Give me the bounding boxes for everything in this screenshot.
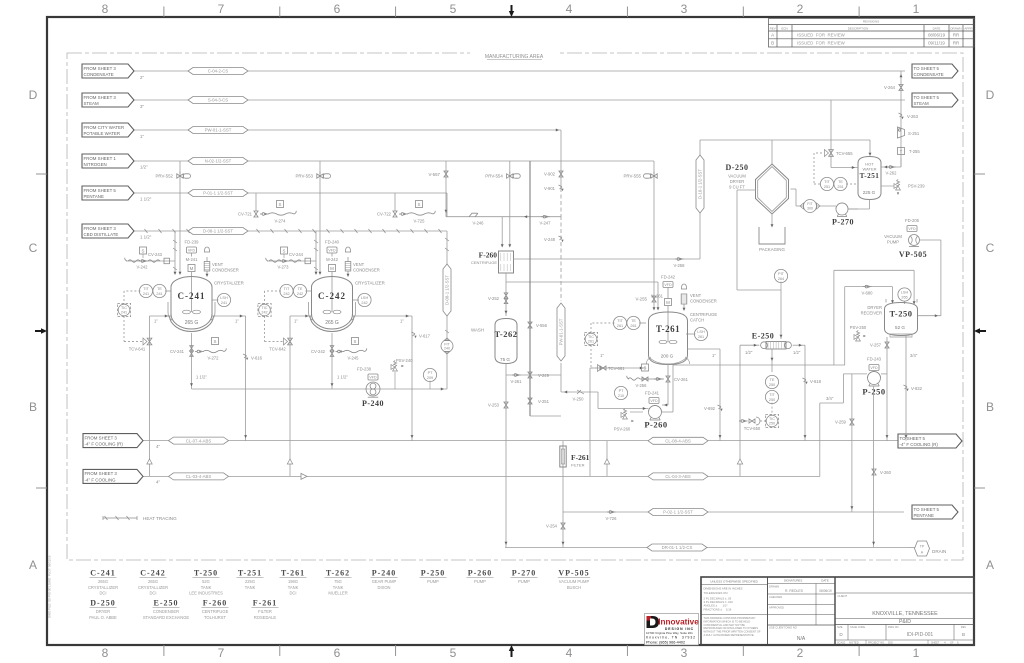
valve V-255	[652, 296, 656, 302]
svg-text:250: 250	[769, 383, 775, 387]
svg-text:VENT: VENT	[212, 262, 224, 267]
instrument TIT-241 TE-241	[139, 284, 152, 297]
svg-text:STANDARD EXCHANGE: STANDARD EXCHANGE	[143, 615, 190, 620]
svg-text:V-253: V-253	[488, 403, 500, 408]
border zone ticks left	[36, 173, 47, 175]
svg-text:V-249: V-249	[538, 373, 550, 378]
svg-text:FROM SHEET 1: FROM SHEET 1	[84, 156, 117, 161]
svg-text:P-260: P-260	[468, 569, 493, 578]
vessel T-262	[495, 319, 517, 364]
svg-text:TIC: TIC	[121, 306, 127, 310]
svg-text:PUMP: PUMP	[474, 579, 486, 584]
svg-text:FD-205: FD-205	[905, 218, 920, 223]
line label D-08 vertical	[443, 264, 451, 316]
svg-text:LSH: LSH	[361, 296, 369, 300]
line drain DR-01	[505, 547, 908, 549]
svg-text:PENTANE: PENTANE	[84, 194, 104, 199]
svg-text:M-241: M-241	[186, 257, 199, 262]
svg-text:MUELLER: MUELLER	[328, 591, 347, 596]
svg-text:B: B	[29, 400, 37, 414]
svg-text:52G: 52G	[202, 579, 210, 584]
svg-text:TANK: TANK	[245, 585, 256, 590]
svg-text:FROM SHEET 3: FROM SHEET 3	[84, 66, 117, 71]
svg-text:ECN: ECN	[781, 26, 787, 30]
line cbd distillate D-08 header	[134, 230, 447, 232]
valve CV-722 branch	[394, 193, 396, 211]
svg-text:T-261: T-261	[656, 324, 680, 334]
svg-text:T-262: T-262	[326, 569, 350, 578]
svg-text:C: C	[986, 241, 995, 255]
svg-text:S: S	[214, 339, 217, 344]
svg-text:CONDENSER: CONDENSER	[690, 299, 717, 304]
pipe T-262 drain	[505, 375, 507, 548]
svg-text:10700 Virginia Pine Way, Suite: 10700 Virginia Pine Way, Suite 201	[646, 631, 693, 635]
centerline marker top	[509, 11, 514, 17]
line label CL-07-4-ABS	[169, 437, 229, 444]
svg-text:265 G: 265 G	[185, 320, 199, 326]
valve V-618	[803, 378, 807, 380]
svg-text:6: 6	[334, 646, 341, 660]
flag to sheet 5 steam	[912, 93, 958, 107]
pipe distillate branch c241	[126, 260, 175, 262]
svg-text:D-250: D-250	[726, 163, 749, 172]
svg-text:08/06/19: 08/06/19	[819, 589, 832, 593]
svg-text:V-245: V-245	[348, 356, 360, 361]
svg-text:TCV-655: TCV-655	[836, 151, 853, 156]
svg-text:241: 241	[143, 292, 149, 296]
svg-text:C-04-2-CS: C-04-2-CS	[208, 69, 229, 74]
pipe T-262 bottom	[505, 364, 507, 376]
vessel C-242	[312, 277, 353, 317]
svg-text:FIT: FIT	[807, 202, 813, 206]
pipe c241 feed drop	[174, 231, 176, 272]
svg-text:D: D	[29, 88, 38, 102]
svg-text:T-251: T-251	[238, 569, 262, 578]
pipe wash water drop	[560, 130, 562, 188]
svg-text:225 G: 225 G	[863, 190, 876, 195]
pipe F-261 riser	[562, 441, 564, 548]
pipe c241 jacket inlet	[150, 315, 172, 317]
svg-text:V-263: V-263	[907, 114, 919, 119]
instrument LSH-241	[217, 293, 230, 306]
pipe distillate branch c242	[267, 260, 316, 262]
svg-text:A: A	[771, 33, 775, 38]
pipe E-250 coolant in	[740, 344, 759, 346]
svg-text:1": 1"	[294, 319, 298, 324]
svg-text:PRV-554: PRV-554	[485, 174, 503, 179]
svg-text:V-256: V-256	[636, 383, 648, 388]
svg-text:CONDENSATE: CONDENSATE	[914, 72, 944, 77]
svg-text:S: S	[279, 202, 282, 207]
vent triangle mid1	[606, 441, 608, 477]
valve PSV-239	[881, 185, 894, 187]
svg-text:B: B	[771, 41, 774, 46]
revision table	[769, 19, 975, 48]
pipe dryer discharge	[771, 215, 773, 226]
dn V-247	[541, 216, 543, 218]
svg-text:250: 250	[769, 398, 775, 402]
svg-text:DCI: DCI	[289, 591, 296, 596]
svg-text:P-240: P-240	[362, 399, 384, 408]
valve V-248	[559, 236, 563, 238]
svg-text:1 1/2": 1 1/2"	[196, 375, 207, 380]
svg-text:1": 1"	[712, 353, 716, 358]
svg-text:ISSUED FOR REVIEW: ISSUED FOR REVIEW	[797, 33, 846, 38]
valve V-556	[528, 322, 532, 328]
svg-text:P-01-1 1/2-SST: P-01-1 1/2-SST	[203, 191, 233, 196]
svg-text:TIT: TIT	[824, 180, 830, 184]
pipe dryer jacket loop	[737, 189, 756, 191]
svg-text:241: 241	[156, 292, 162, 296]
svg-text:E-250: E-250	[154, 599, 179, 608]
dryer D-250 hexagon	[756, 164, 789, 214]
line steam S-04 header	[134, 99, 905, 101]
svg-text:D-10-1 1/2-SST: D-10-1 1/2-SST	[698, 169, 703, 199]
instrument FIT-300	[804, 200, 817, 213]
svg-text:PAUL O. ABBE: PAUL O. ABBE	[89, 615, 117, 620]
pipe into T-251 right	[900, 158, 902, 167]
svg-text:CV-242: CV-242	[311, 349, 326, 354]
svg-text:300: 300	[807, 207, 813, 211]
valve V-617	[412, 332, 416, 334]
svg-text:TCV-650: TCV-650	[744, 426, 761, 431]
svg-text:V-260: V-260	[880, 470, 892, 475]
svg-text:STEAM: STEAM	[84, 101, 99, 106]
line label C-04-2-CS	[188, 68, 248, 75]
svg-text:F-261: F-261	[253, 599, 278, 608]
pipe C-242 bottom outlet	[331, 333, 333, 389]
svg-text:PIT: PIT	[778, 272, 785, 276]
svg-text:PSV-260: PSV-260	[614, 427, 631, 432]
svg-text:CLIENT: CLIENT	[838, 594, 848, 598]
svg-text:08/06/19: 08/06/19	[928, 33, 946, 38]
svg-text:C-241: C-241	[90, 569, 115, 578]
svg-text:DESCRIPTION: DESCRIPTION	[848, 26, 869, 30]
svg-text:242: 242	[283, 292, 289, 296]
border zone ticks bottom	[163, 645, 165, 656]
svg-text:V-725: V-725	[414, 219, 426, 224]
svg-text:CRYSTALIZER: CRYSTALIZER	[355, 281, 385, 286]
svg-text:FROM SHEET 3: FROM SHEET 3	[85, 471, 118, 476]
svg-text:M: M	[330, 266, 334, 271]
svg-text:S: S	[142, 248, 145, 253]
pipe c241 jacket return	[212, 315, 246, 317]
svg-text:V-556: V-556	[536, 323, 548, 328]
svg-text:PACKAGING: PACKAGING	[759, 247, 785, 252]
valve V-632	[904, 385, 908, 387]
svg-text:DRYER: DRYER	[96, 609, 110, 614]
pipe wash header	[446, 216, 561, 218]
svg-text:CAGE CODE: CAGE CODE	[850, 626, 865, 629]
line nitrogen N-02 header	[134, 160, 654, 162]
svg-text:A DULY AUTHORIZED REPRESENTATI: A DULY AUTHORIZED REPRESENTATIVE.	[704, 633, 755, 637]
svg-text:M: M	[190, 266, 194, 271]
svg-text:C-242: C-242	[318, 291, 346, 301]
steam trap S-251	[898, 127, 905, 138]
svg-text:B: B	[962, 632, 965, 637]
svg-text:PSV-250: PSV-250	[850, 325, 867, 330]
svg-text:CONDENSER: CONDENSER	[212, 268, 239, 273]
svg-text:V-259: V-259	[835, 420, 847, 425]
svg-text:261: 261	[588, 340, 594, 344]
svg-text:T-250: T-250	[890, 309, 913, 319]
pipe dryer feed top	[700, 139, 870, 141]
pipe P-250 drain to DR	[873, 386, 875, 548]
pipe c242 jacket inlet	[290, 315, 312, 317]
svg-text:TANK: TANK	[288, 585, 299, 590]
svg-text:INFORMATION WHICH IS TO BE HEL: INFORMATION WHICH IS TO BE HELD	[704, 619, 751, 623]
heat tracing legend	[103, 517, 137, 519]
svg-text:SHEET: SHEET	[931, 642, 940, 645]
svg-text:REVISIONS: REVISIONS	[863, 20, 879, 24]
svg-text:USE CLIENT DWG NO: USE CLIENT DWG NO	[769, 626, 797, 630]
svg-text:POTABLE WATER: POTABLE WATER	[84, 131, 121, 136]
svg-text:TE: TE	[770, 378, 775, 382]
svg-text:5: 5	[450, 2, 457, 16]
line cooling CL-03 header	[143, 475, 820, 477]
svg-text:TE: TE	[838, 180, 843, 184]
svg-text:V-248: V-248	[544, 237, 556, 242]
svg-text:CV-243: CV-243	[148, 252, 163, 257]
line pentane P-01 header	[134, 192, 447, 194]
svg-text:VFD: VFD	[188, 249, 196, 253]
svg-text:VFD: VFD	[650, 399, 658, 403]
svg-text:OF: OF	[950, 642, 954, 645]
line label DR-01-1-CS	[647, 544, 707, 551]
pipe T-250 right drop	[905, 336, 907, 441]
svg-text:TCV-661: TCV-661	[608, 366, 625, 371]
svg-text:TCV-642: TCV-642	[269, 347, 286, 352]
dn V-726	[607, 511, 609, 513]
svg-text:210: 210	[618, 394, 624, 398]
svg-text:SIZE: SIZE	[837, 626, 843, 629]
instrument TIT-261 TE-261	[613, 316, 626, 329]
svg-text:BUSCH: BUSCH	[567, 585, 581, 590]
svg-text:B: B	[986, 400, 994, 414]
svg-text:242: 242	[261, 311, 267, 315]
svg-text:Phone: (865) 966-4402: Phone: (865) 966-4402	[646, 640, 685, 644]
vessel T-250	[885, 303, 918, 336]
line label P-02-1-SST	[648, 509, 708, 516]
svg-text:VFD: VFD	[328, 249, 336, 253]
flag from sheet 3 cooling	[83, 469, 143, 483]
svg-text:V-262: V-262	[886, 171, 898, 176]
svg-text:RR: RR	[953, 33, 959, 38]
svg-text:PSV-239: PSV-239	[908, 184, 925, 189]
pipe P-260 discharge	[662, 411, 674, 413]
svg-text:P-250: P-250	[862, 387, 885, 397]
svg-text:TIT: TIT	[617, 319, 623, 323]
svg-text:TO SHEET 5: TO SHEET 5	[914, 66, 940, 71]
svg-text:DRAIN: DRAIN	[932, 549, 946, 554]
vessel T-251	[858, 157, 881, 200]
centerline marker right	[974, 328, 980, 333]
valve V-557	[445, 161, 447, 217]
svg-text:V-251: V-251	[538, 399, 550, 404]
svg-text:P-270: P-270	[512, 569, 537, 578]
pipe vapor line outer	[833, 270, 835, 365]
pipe c242 jacket return	[353, 315, 413, 317]
svg-text:CONDENSER: CONDENSER	[353, 268, 380, 273]
pipe nitrogen to wash tank	[529, 161, 531, 416]
svg-text:1/2": 1/2"	[745, 350, 753, 355]
svg-text:3: 3	[681, 2, 688, 16]
svg-text:V-901: V-901	[544, 186, 556, 191]
svg-text:WITHOUT THE PRIOR WRITTEN CONS: WITHOUT THE PRIOR WRITTEN CONSENT OF	[704, 630, 761, 634]
svg-text:S-251: S-251	[908, 131, 920, 136]
valve TCV-650	[758, 420, 766, 422]
svg-text:NOTED: NOTED	[849, 641, 859, 645]
svg-text:265G: 265G	[148, 579, 158, 584]
svg-text:V-264: V-264	[884, 85, 896, 90]
flag from sheet 1 nitrogen	[82, 154, 134, 168]
manufacturing area label	[470, 50, 560, 57]
svg-text:P-250: P-250	[421, 569, 446, 578]
svg-text:265G: 265G	[98, 579, 108, 584]
vent triangle mid2	[737, 459, 742, 464]
svg-text:1/2": 1/2"	[793, 350, 801, 355]
svg-text:V-632: V-632	[911, 386, 923, 391]
manufacturing area boundary	[67, 53, 963, 560]
line cooling CL-07 header	[143, 440, 899, 442]
svg-text:1/2": 1/2"	[140, 164, 148, 169]
svg-text:DRAWN: DRAWN	[950, 26, 961, 30]
svg-text:3/4": 3/4"	[910, 353, 918, 358]
valve PRV-554	[509, 161, 511, 245]
svg-text:251: 251	[824, 185, 830, 189]
flag from sheet 3 cbd distillate	[82, 224, 134, 238]
svg-text:P-240: P-240	[372, 569, 397, 578]
svg-text:TANK: TANK	[201, 585, 212, 590]
svg-text:75 G: 75 G	[500, 357, 510, 362]
valve PSV-250	[854, 335, 858, 340]
flag from city water	[82, 123, 134, 137]
svg-text:TO SHEET 5: TO SHEET 5	[914, 507, 940, 512]
svg-text:5: 5	[450, 646, 457, 660]
pipe centrifuge bottoms	[505, 273, 507, 316]
svg-text:TIT: TIT	[769, 393, 775, 397]
valve TCV-661	[590, 367, 646, 369]
svg-text:V-247: V-247	[540, 221, 552, 226]
drain flag TP-A	[915, 541, 930, 556]
svg-text:4": 4"	[156, 480, 160, 485]
instrument TE-250	[765, 375, 778, 388]
svg-text:DCI: DCI	[149, 591, 156, 596]
svg-text:REPRODUCED OR DISCLOSED TO OTH: REPRODUCED OR DISCLOSED TO OTHERS	[704, 626, 759, 630]
svg-text:6: 6	[334, 2, 341, 16]
instrument TIC-242	[258, 303, 271, 316]
vessel C-241	[171, 277, 212, 317]
svg-text:261: 261	[630, 324, 636, 328]
valve V-616	[243, 354, 247, 356]
pipe wash water lower	[560, 216, 562, 301]
svg-text:FRACTIONS ± 1/16: FRACTIONS ± 1/16	[704, 607, 732, 611]
svg-text:S: S	[283, 248, 286, 253]
instrument TIT-242 TE-242	[280, 284, 293, 297]
svg-text:FILTER: FILTER	[571, 463, 585, 468]
svg-text:240: 240	[444, 347, 450, 351]
svg-text:V-254: V-254	[546, 524, 558, 529]
pump P-260	[649, 406, 662, 419]
svg-text:198G: 198G	[288, 579, 298, 584]
instrument FIT-240	[441, 340, 453, 352]
svg-text:TOLHURST: TOLHURST	[204, 615, 226, 620]
svg-text:V-274: V-274	[275, 219, 287, 224]
svg-text:4: 4	[566, 2, 573, 16]
svg-text:D-250: D-250	[90, 599, 115, 608]
valve V-263	[899, 113, 903, 115]
line label P-01-1-SST	[188, 190, 248, 197]
pump P-250	[868, 372, 881, 385]
svg-text:HEAT TRACING: HEAT TRACING	[143, 516, 177, 521]
svg-text:250: 250	[769, 422, 775, 426]
svg-text:1 1/2": 1 1/2"	[337, 375, 348, 380]
svg-text:8: 8	[102, 646, 109, 660]
svg-text:CENTRIFUGE: CENTRIFUGE	[690, 312, 717, 317]
packaging box	[759, 227, 785, 244]
svg-text:APPR: APPR	[964, 26, 973, 30]
svg-text:FD-242: FD-242	[661, 275, 676, 280]
svg-text:ROSEDALE: ROSEDALE	[254, 615, 277, 620]
line label S-04-3-CS	[188, 97, 248, 104]
svg-text:DRAWN: DRAWN	[769, 585, 779, 589]
svg-text:F-260: F-260	[203, 599, 228, 608]
svg-text:PUMP: PUMP	[427, 579, 439, 584]
instrument TIC-241	[117, 303, 130, 316]
svg-text:N/A: N/A	[797, 636, 806, 642]
svg-text:9 CU FT: 9 CU FT	[729, 185, 745, 190]
valve CV-244 cluster	[266, 258, 268, 261]
pipe T-251 bottom to P-270	[869, 200, 871, 210]
svg-text:2: 2	[797, 646, 804, 660]
svg-text:E-250: E-250	[752, 332, 775, 341]
svg-text:CRYSTALIZER: CRYSTALIZER	[214, 281, 244, 286]
svg-text:RECEIVER: RECEIVER	[861, 311, 882, 316]
pipe pentane return riser	[589, 368, 591, 476]
svg-text:RR: RR	[953, 41, 959, 46]
valve V-249	[528, 372, 532, 378]
pipe T-261 bottom outlet	[667, 365, 669, 406]
svg-text:T-255: T-255	[909, 149, 920, 154]
svg-text:VENT: VENT	[690, 293, 702, 298]
svg-text:8: 8	[102, 2, 109, 16]
svg-text:PENTANE: PENTANE	[914, 513, 934, 518]
svg-text:CV-244: CV-244	[289, 252, 304, 257]
svg-text:V-250: V-250	[573, 397, 585, 402]
svg-text:1: 1	[913, 2, 920, 16]
svg-text:DCI: DCI	[99, 591, 106, 596]
svg-text:V-257: V-257	[870, 343, 882, 348]
line label CL-08-4-ABS	[648, 437, 708, 444]
line label PW vertical	[557, 303, 565, 361]
svg-text:TIC: TIC	[769, 417, 775, 421]
svg-text:PUMP: PUMP	[887, 240, 899, 245]
svg-text:1": 1"	[400, 319, 404, 324]
svg-text:FD-241: FD-241	[645, 391, 660, 396]
trap T-255	[898, 148, 905, 155]
svg-text:PRV-552: PRV-552	[156, 174, 174, 179]
svg-text:CL-03-4-ABS: CL-03-4-ABS	[186, 474, 212, 479]
svg-text:DATE: DATE	[821, 579, 829, 583]
svg-text:1 1/2": 1 1/2"	[140, 196, 152, 201]
svg-text:V-242: V-242	[137, 265, 149, 270]
flag to sheet 5 cooling R	[898, 434, 962, 448]
dn V-680	[863, 286, 865, 288]
pump P-270	[836, 203, 848, 215]
valve V-257	[885, 342, 889, 348]
svg-text:UNLESS OTHERWISE SPECIFIED: UNLESS OTHERWISE SPECIFIED	[710, 580, 758, 584]
svg-text:S: S	[354, 339, 357, 344]
